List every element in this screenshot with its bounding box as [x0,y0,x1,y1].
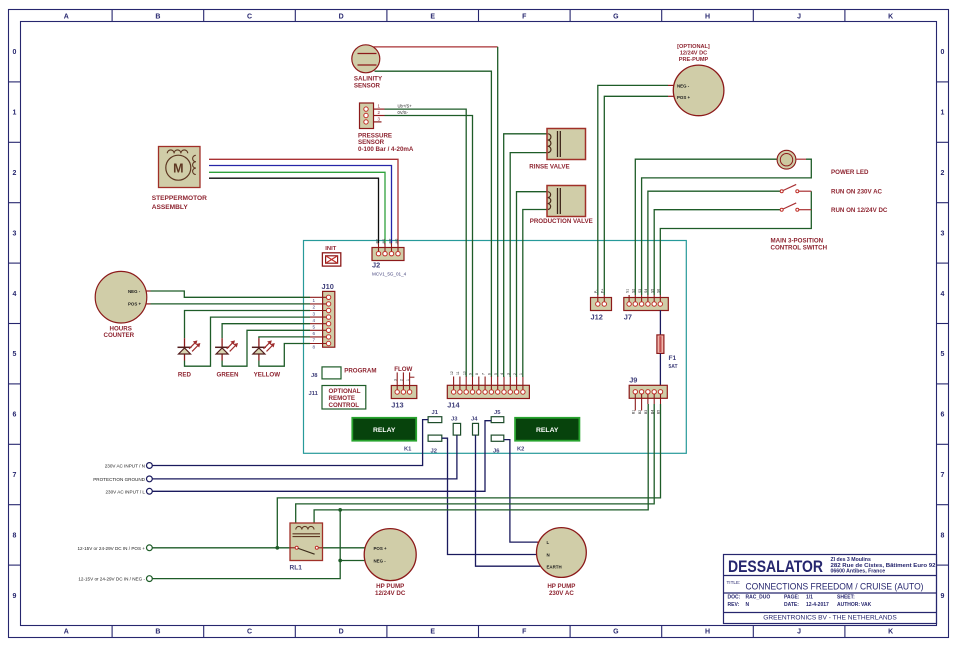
terminal 230V AC INPUT / N [147,463,153,469]
svg-text:-M1: -M1 [376,239,380,245]
J14 pin 12 stub [453,377,455,390]
wire salinity bottom to J14 pin 6 [375,71,492,377]
svg-text:K1: K1 [404,447,412,453]
svg-text:9: 9 [469,373,473,375]
svg-text:RUN ON 12/24V DC: RUN ON 12/24V DC [831,207,888,214]
terminal 12-15V or 24-29V DC IN / NEG - [147,576,153,582]
svg-text:H: H [705,629,710,636]
svg-text:S1: S1 [625,289,629,293]
net labels above J7 [625,289,660,293]
J14 pin 8 stub [478,377,480,390]
svg-text:J1: J1 [432,410,439,416]
svg-text:-M2: -M2 [389,239,393,245]
svg-text:J8: J8 [311,373,318,379]
svg-text:L: L [547,540,550,545]
net labels above J12 [594,289,605,293]
PCB outline box [304,241,687,454]
wire RED led to J10 pin4 [185,317,311,366]
relay K2 [515,418,579,441]
svg-text:CONTROL: CONTROL [329,402,360,409]
junction NEG top [339,508,342,511]
svg-text:J11: J11 [309,391,319,397]
wire RL1 coil left to J9 pin 4 [296,404,655,523]
jumper J5 [491,417,504,423]
jumper J1 [428,417,442,423]
wire pressure pin1 Ub+/S+ to J14 pin 10 [385,109,467,377]
J14 pin 3 stub [509,377,511,390]
svg-text:J13: J13 [391,401,403,410]
wire J7 pin2 to power led [635,159,777,295]
J14 pin 11 stub [459,377,461,390]
svg-text:S5: S5 [650,289,654,293]
wire stepper M green to J2 pin 2 [209,172,385,243]
svg-text:J6: J6 [493,448,500,454]
relay K1 [352,418,416,441]
wire pressure pin2 0V/S- to J14 pin 9 [385,116,473,378]
svg-text:F1: F1 [669,355,677,362]
LED RED [178,338,201,360]
wire switch commons to J7 pin6 [660,191,811,295]
svg-text:1/1: 1/1 [806,595,813,601]
terminal 12-15V or 24-29V DC IN / POS + [147,545,153,551]
svg-text:G: G [613,14,619,21]
HP pump 12/24V DC motor [364,529,416,581]
svg-text:DATE:: DATE: [784,602,799,608]
wire 230V AC input L to jumper J5 [152,421,491,492]
svg-text:N: N [547,553,550,558]
wire hours counter NEG to J10 pin 1 [151,291,311,297]
svg-text:C: C [247,14,252,21]
wire J7 pin5 to switch RUN ON 12/24V DC [654,210,780,295]
svg-text:CONNECTIONS FREEDOM / CRUISE (: CONNECTIONS FREEDOM / CRUISE (AUTO) [746,580,924,591]
svg-text:8: 8 [941,532,945,539]
wire rinse valve top to J14 pin 4 [504,134,548,377]
svg-text:INIT: INIT [325,246,336,252]
svg-text:PRODUCTION VALVE: PRODUCTION VALVE [530,218,593,225]
wire salinity top to J14 pin 5 [374,46,498,48]
svg-text:AUTHOR:: AUTHOR: [837,602,860,608]
svg-text:OPTIONAL: OPTIONAL [329,388,361,395]
svg-text:230V AC INPUT / N: 230V AC INPUT / N [105,464,145,469]
svg-text:7: 7 [481,373,485,375]
svg-text:12: 12 [450,371,454,375]
svg-text:5: 5 [313,325,316,330]
wire NEG to HP pump 12/24V [340,560,365,562]
svg-text:S2: S2 [632,289,636,293]
svg-text:Ub+/S+: Ub+/S+ [398,103,413,108]
RINSE VALVE [547,129,586,160]
svg-text:PRE-PUMP: PRE-PUMP [679,57,709,63]
svg-text:1: 1 [13,110,17,117]
svg-text:2: 2 [313,305,316,310]
switch RUN ON 230V AC [780,184,811,192]
svg-text:C: C [247,629,252,636]
svg-text:YELLOW: YELLOW [254,371,281,378]
title block [724,555,937,624]
svg-text:230V AC INPUT / L: 230V AC INPUT / L [106,489,146,494]
svg-text:J: J [797,629,801,636]
svg-text:PAGE:: PAGE: [784,595,800,601]
svg-text:1: 1 [406,379,410,381]
wire protection ground to jumper J3 [152,435,457,479]
svg-text:STEPPERMOTOR: STEPPERMOTOR [152,195,207,202]
net labels above J2 [376,239,400,245]
svg-text:PROTECTION GROUND: PROTECTION GROUND [93,477,145,482]
svg-text:-M1: -M1 [382,239,386,245]
switch RUN ON 12/24V DC [780,203,811,211]
svg-text:9: 9 [941,593,945,600]
svg-text:S3: S3 [638,289,642,293]
svg-text:J2: J2 [372,260,380,269]
wire DC POS to relay RL1 and J9 pin 5 [152,547,290,549]
svg-text:PROGRAM: PROGRAM [344,367,376,374]
svg-text:P+: P+ [601,289,605,293]
connector J14 [447,385,529,398]
svg-text:4: 4 [13,291,17,298]
svg-text:2: 2 [941,170,945,177]
wire J7 pin4 to switch RUN ON 230V AC [648,191,780,295]
svg-text:B: B [155,14,160,21]
svg-text:POS +: POS + [677,95,690,100]
wire RL1 coil right NEG to J9 pin 3 [314,404,648,523]
svg-text:D: D [339,14,344,21]
svg-text:RELAY: RELAY [373,427,396,434]
svg-text:9: 9 [13,593,17,600]
svg-text:6: 6 [13,412,17,419]
svg-text:A: A [64,629,69,636]
svg-text:DOC:: DOC: [728,595,741,601]
svg-text:7: 7 [313,338,316,343]
relay RL1 [290,523,323,561]
svg-text:B: B [155,629,160,636]
svg-text:2: 2 [13,170,17,177]
svg-text:K: K [888,629,893,636]
svg-text:7: 7 [13,472,17,479]
svg-text:FLOW: FLOW [394,366,412,373]
svg-text:N: N [746,602,750,608]
svg-text:5AT: 5AT [669,364,678,370]
wire 230V AC input N to jumper J1 [152,420,428,466]
svg-text:B3: B3 [644,410,648,414]
svg-text:RELAY: RELAY [536,427,559,434]
svg-text:A: A [64,14,69,21]
wire stepper M black to J2 pin 1 [209,178,379,243]
svg-text:3: 3 [313,311,316,316]
svg-text:0: 0 [941,49,945,56]
LED GREEN [215,338,238,360]
svg-text:J4: J4 [471,417,478,423]
pin numbers J10 [313,298,316,349]
svg-text:12-15V or 24-29V DC IN / POS +: 12-15V or 24-29V DC IN / POS + [77,546,145,551]
svg-text:MCV1_5G_01_4: MCV1_5G_01_4 [372,271,407,276]
wire rinse valve bottom to J14 pin 3 [510,153,548,377]
svg-text:NEG -: NEG - [374,559,387,564]
svg-text:GREEN: GREEN [217,371,240,378]
connector J12 [591,295,612,311]
svg-text:VAK: VAK [861,602,872,608]
svg-text:7: 7 [941,472,945,479]
svg-text:12-15V or 24-29V DC IN / NEG -: 12-15V or 24-29V DC IN / NEG - [78,577,145,582]
J14 pin 7 stub [484,377,486,390]
svg-text:D: D [339,629,344,636]
svg-text:EARTH: EARTH [547,564,562,569]
svg-text:J10: J10 [322,282,334,291]
svg-text:POS +: POS + [374,546,387,551]
svg-text:RAC_DUO: RAC_DUO [746,595,771,601]
connector J9 [629,385,667,410]
svg-text:8: 8 [13,532,17,539]
jumper INIT [322,253,340,266]
pin numbers above J14 [450,371,523,375]
svg-text:5: 5 [13,351,17,358]
svg-text:11: 11 [456,371,460,375]
net labels above J13 [393,379,409,381]
svg-text:8: 8 [475,373,479,375]
svg-text:12/24V DC: 12/24V DC [680,50,707,56]
wire production valve top to J14 pin 2 [517,192,549,377]
wire jumper J4 to HP pump 230V EARTH [476,435,541,566]
pressure sensor [360,103,385,129]
svg-text:POS +: POS + [128,302,141,307]
svg-text:TITLE:: TITLE: [727,580,741,585]
svg-text:3: 3 [13,230,17,237]
svg-text:J14: J14 [447,401,460,410]
svg-text:F: F [522,14,527,21]
HP pump 230V AC motor [537,528,587,578]
LED YELLOW [252,338,275,360]
svg-text:4: 4 [313,318,316,323]
svg-text:HP PUMP: HP PUMP [547,583,575,590]
connector J2 [372,248,404,261]
pre-pump motor [668,65,724,116]
hours counter [95,271,150,323]
J14 pin 9 stub [472,377,474,390]
svg-text:COUNTER: COUNTER [104,332,135,339]
net labels below J9 [632,410,661,414]
svg-text:0V/S-: 0V/S- [398,110,409,115]
svg-text:J7: J7 [624,313,632,322]
svg-text:J: J [797,14,801,21]
svg-text:RUN ON 230V AC: RUN ON 230V AC [831,189,883,196]
connector J10 [310,291,335,347]
svg-text:RINSE VALVE: RINSE VALVE [529,163,569,170]
wire YELLOW led to J10 pin8 [259,344,310,367]
svg-text:B1: B1 [632,410,636,414]
wire J10 pin5 to GREEN led [222,324,310,339]
wire pre-pump POS to J12 pin 2 [604,96,668,295]
wire power led return to J7 pin3 [642,159,812,295]
svg-text:5: 5 [494,373,498,375]
jumper J6 [491,435,504,441]
wire hours counter POS to J10 pin 2 [151,303,311,305]
svg-text:REMOTE: REMOTE [329,395,355,402]
svg-text:3: 3 [941,230,945,237]
svg-text:5: 5 [941,351,945,358]
svg-text:6: 6 [488,373,492,375]
wire GREEN led to J10 pin6 [222,330,310,366]
doc fields [728,595,872,609]
svg-text:J5: J5 [494,410,501,416]
wire J10 pin7 to YELLOW led [259,337,310,338]
J14 pin 6 stub [490,377,492,390]
svg-text:SHEET:: SHEET: [837,595,855,601]
svg-text:4: 4 [941,291,945,298]
svg-text:1: 1 [941,110,945,117]
svg-text:12-4-2017: 12-4-2017 [806,602,829,608]
svg-text:SENSOR: SENSOR [354,82,381,89]
wire RL1 switch to HP pump 12/24V POS [323,547,366,549]
svg-text:DESSALATOR: DESSALATOR [728,557,823,576]
svg-text:-M2: -M2 [395,239,399,245]
svg-text:RL1: RL1 [290,564,303,571]
terminal PROTECTION GROUND [147,476,153,482]
wire stepper M blue to J2 pin 3 [209,166,392,244]
wire jumper J6 to HP pump 230V L [504,440,539,542]
svg-text:J9: J9 [629,375,637,384]
svg-text:B2: B2 [638,410,642,414]
svg-text:3: 3 [393,379,397,381]
svg-text:K: K [888,14,893,21]
svg-text:E: E [430,14,435,21]
svg-text:J3: J3 [451,417,458,423]
wire J10 pin3 to RED led [185,311,311,339]
connector J13 flow sensor [391,372,417,398]
svg-text:S4: S4 [644,289,648,293]
junction NEG pump [339,559,342,562]
svg-text:HP PUMP: HP PUMP [376,583,404,590]
wire pre-pump NEG to J12 pin 1 [598,85,668,295]
J14 pin 4 stub [503,377,505,390]
svg-text:1: 1 [313,298,316,303]
svg-text:RED: RED [178,371,192,378]
svg-text:E: E [430,629,435,636]
power LED indicator [777,150,806,169]
J14 pin 10 stub [465,377,467,390]
jumper J2 board [428,435,442,441]
fuse F1 [657,335,664,354]
svg-text:NEG -: NEG - [677,83,690,88]
svg-text:P-: P- [594,290,598,293]
wire DC NEG branch [152,510,340,579]
svg-text:J2: J2 [431,448,437,454]
svg-text:CONTROL SWITCH: CONTROL SWITCH [771,245,828,252]
svg-text:0: 0 [13,49,17,56]
svg-text:G: G [613,629,619,636]
terminal 230V AC INPUT / L [147,488,153,494]
wire stepper M red to J2 pin 4 [209,159,398,243]
J14 pin 1 stub [522,377,524,390]
svg-text:M: M [173,161,183,175]
svg-text:8: 8 [313,344,316,349]
svg-text:12/24V DC: 12/24V DC [375,590,406,597]
svg-text:H: H [705,14,710,21]
junction POS [276,546,279,549]
wire J7 pin6 to fuse F1 [659,310,661,335]
wire production valve bottom to J14 pin 1 [523,210,548,378]
svg-text:F: F [522,629,527,636]
svg-text:2: 2 [400,379,404,381]
svg-text:NEG -: NEG - [128,289,141,294]
jumper J8 PROGRAM [322,367,341,379]
jumper J4 [473,423,479,435]
svg-text:ASSEMBLY: ASSEMBLY [152,204,189,211]
svg-text:[OPTIONAL]: [OPTIONAL] [677,44,710,50]
svg-text:10: 10 [462,371,466,375]
svg-text:230V AC: 230V AC [549,590,574,597]
svg-text:POWER LED: POWER LED [831,169,869,176]
stepper motor assembly [159,147,201,188]
connector J11 optional remote control [322,386,366,410]
PRODUCTION VALVE [547,186,586,217]
svg-text:S6: S6 [657,289,661,293]
svg-text:J12: J12 [591,313,603,322]
wire jumper J2 to HP pump 230V N [442,438,537,554]
svg-text:06600 Antibes, France: 06600 Antibes, France [831,569,886,575]
svg-text:6: 6 [313,331,316,336]
svg-text:0-100 Bar / 4-20mA: 0-100 Bar / 4-20mA [358,146,414,153]
connector J7 [624,295,669,311]
J14 pin 2 stub [516,377,518,390]
svg-text:GREENTRONICS BV - THE NETHERLA: GREENTRONICS BV - THE NETHERLANDS [763,614,897,621]
wire fuse F1 to J9 pin 5 [659,353,661,385]
svg-text:K2: K2 [517,447,524,453]
svg-text:6: 6 [941,412,945,419]
svg-text:REV:: REV: [728,602,740,608]
J14 pin 5 stub [497,377,499,390]
salinity sensor [352,45,380,73]
jumper J3 [453,423,460,435]
